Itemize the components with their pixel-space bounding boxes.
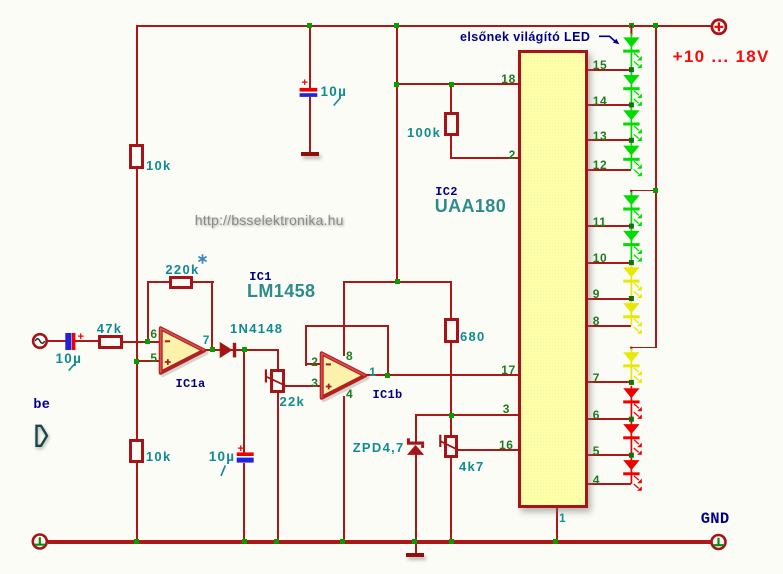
junction LED pin13 [629,138,634,143]
wire zener ground stub [415,542,417,553]
pin label 10 [593,252,608,264]
pin label 1 IC1b [369,366,376,378]
wire 220k left stem [147,281,170,283]
asterisk for 220k [198,254,206,263]
wire corner down to trimmer 22k top [277,349,279,370]
resistor R4 220k [169,276,193,289]
wire IC1a output through D1 to corner [204,349,278,351]
wire pin16 horizontal [458,449,519,451]
value label D1 1N4148 [230,322,283,335]
wire top rail to pin8 node vertical [396,25,398,283]
pin label 15 [593,59,608,71]
terminal input (sine) [33,334,47,348]
wire IC1b pin8 vertical [343,281,345,356]
wire 100k bottom stem [450,136,452,159]
capacitor C3 10u minus plate [237,458,254,463]
junction right rail group B tap [653,188,658,193]
pin label 9 [593,288,600,300]
junction top wire at right rail [653,23,658,28]
wire right +V rail vertical [655,25,657,348]
junction LED pin15 [629,67,634,72]
junction LED pin7 [629,380,634,385]
LED D12 green [623,146,642,177]
pin label 12 [593,159,608,171]
part label UAA180 [435,197,506,215]
label elsonek vilagito LED [460,31,590,44]
pin label 7 UAA [593,372,600,384]
C2 polarity slash [69,365,74,371]
capacitor C2 10u minus plate [65,333,71,350]
capacitor C3 10u plus plate [237,452,254,456]
trimmer P1 22k body [270,369,285,393]
wire non-inverting input IC1a [135,360,162,362]
junction pin3 node [449,413,454,418]
junction IC1a inverting node [145,339,150,344]
value label C1 10u [321,85,348,99]
wire red stub chain C top [630,347,632,350]
value label R4 220k [165,263,199,276]
pin label 2 [509,149,516,161]
pin label 8 UAA [593,315,600,327]
pin label 1 UAA180 [559,512,566,524]
terminal ground right GND [712,535,726,549]
junction LED pin14 [629,102,634,107]
pin label 2 IC1b [311,356,318,368]
LED D7 yellow [623,352,642,383]
wire pin7 to LED chain [587,381,631,383]
pin label 4 IC1b [346,388,353,400]
IC IC2 UAA180 body [518,50,588,508]
pin label 6 IC1a [150,328,157,340]
junction IC1a output [210,347,215,352]
pin label 8 IC1b [346,350,353,362]
value label P2 4k7 [459,460,485,473]
wire C3 to ground rail [243,463,245,543]
LED D14 green [623,75,642,106]
zener diode D2 ZPD4,7 [407,442,424,445]
junction rail at zener [412,539,417,544]
value label R2 10k [146,450,172,463]
wire pin12 to LED chain [587,169,631,171]
resistor R6 680 [444,318,460,343]
resistor R5 100k [444,112,459,136]
op-amp IC1b plus symbol [326,384,332,390]
trimmer P2 4k7 body [444,435,459,458]
junction top wire at pin8 branch [394,23,399,28]
junction pin18 left [394,82,399,87]
LED D5 red [623,424,642,455]
wire top +V rail horizontal [136,25,713,27]
value label D2 ZPD4,7 [353,441,405,454]
C1 polarity slash [334,99,340,106]
trimmer P2 4k7 wiper [439,435,441,447]
value label R3 47k [97,322,123,335]
plus mark C3 [238,444,244,455]
wire 47k to op-amp inverting input [123,341,162,343]
wire pin5 to LED chain [587,454,631,456]
junction top wire at C1 [307,23,312,28]
pin label 17 [501,364,516,376]
label arrow to first LED [599,36,615,41]
junction LED pin11 [629,224,634,229]
value label C2 10u [56,352,83,366]
value label R1 10k [146,159,172,172]
pin label 4 UAA [593,474,600,486]
LED D4 red [623,460,642,491]
pin label 5 UAA [593,445,600,457]
pin label 13 [593,130,608,142]
trimmer P1 22k wiper [265,369,267,382]
op-amp IC1b minus symbol [326,363,331,365]
plus mark C2 [78,332,84,343]
junction rail at IC1b pin4 [340,539,345,544]
capacitor C1 10u minus plate [300,93,318,97]
wire C1 bottom stem to ground bar [309,97,311,153]
wire pin18 horizontal [396,83,519,85]
junction LED pin9 [629,296,634,301]
label GND [701,512,730,528]
wire C2 to R 47k [75,340,99,342]
wire left vertical rail [136,25,138,542]
LED D9 yellow [623,267,642,298]
wire IC1b feedback left vertical [305,325,307,366]
junction pin8 node [395,279,400,284]
wire 22k bottom to ground rail [277,393,279,542]
wire pin4 to LED chain [587,483,631,485]
pin label 14 [593,95,608,107]
wire LED group B tap [630,190,656,192]
terminal ground left [33,535,47,549]
wire IC1b feedback top horizontal [305,325,389,327]
wire UAA180 pin1 vertical [556,507,558,542]
wire 100k top stem [450,83,452,113]
wire pin13 to LED chain [587,139,631,141]
pin label 5 IC1a [150,352,157,364]
wire 4k7 bottom to ground rail [450,457,452,542]
junction pin18 at 100k [449,82,454,87]
wire zener anode to ground rail [415,454,417,542]
value label P1 22k [280,395,306,408]
capacitor C2 10u plus plate [72,333,76,350]
pin label 3 [503,403,510,415]
ground bar under C1 [301,152,320,156]
LED D15 green [623,37,642,68]
junction rail at 22k [274,539,279,544]
label be [33,399,50,413]
junction rail at UAA180 pin1 [553,539,558,544]
wire input terminal to C2 [47,340,66,342]
LED chain B stem yellow part [630,265,632,326]
LED D10 green [623,231,642,262]
pin label 6 UAA [593,409,600,421]
pin label 16 [499,439,514,451]
junction LED pin6 [629,417,634,422]
pin label 11 [593,216,607,228]
resistor R1 10k (top left) [129,144,144,169]
junction rail at 4k7 [449,539,454,544]
wire pin2 horizontal [450,157,519,159]
wire feedback left vertical IC1a [147,281,149,342]
designator IC1b [373,389,403,401]
LED D8 yellow [623,303,642,334]
junction left rail plus input [134,359,139,364]
junction IC1b output [385,373,390,378]
value label C3 10u [209,450,236,464]
wire pin8 supply horizontal [343,281,452,283]
designator IC2 [435,186,458,198]
capacitor C1 10u plus plate [300,88,318,92]
LED D6 red [623,388,642,419]
part label LM1458 [247,282,315,300]
op-amp IC1b [322,353,366,397]
wire 22k wiper to IC1b plus input [285,385,322,387]
pin label 3 IC1b [311,377,318,389]
value label R5 100k [407,126,441,139]
value label R6 680 [460,330,486,343]
wire IC1b feedback right vertical [387,325,389,376]
op-amp IC1b shadow [324,356,368,400]
wire pin9 to LED chain [587,298,631,300]
capacitor C3 plate gap mask [242,456,246,458]
wire pin14 to LED chain [587,104,631,106]
capacitor C1 plate gap mask [308,92,312,93]
wire pin6 to LED chain [587,418,631,420]
pin label 7 IC1a [203,334,210,346]
op-amp IC1a [161,328,205,372]
wire red stub chain A top [630,25,632,35]
wire pin8 to LED chain [587,325,631,327]
wire pin10 to LED chain [587,262,631,264]
op-amp IC1a plus symbol [165,359,171,365]
plus mark C1 [302,78,308,89]
designator IC1a [176,378,206,390]
wire pin17 horizontal IC1b output [364,374,519,376]
diode D1 1N4148 [220,342,233,358]
LED chain C stem yellow part [630,349,632,386]
junction top wire at LED chain A [629,23,634,28]
LED D11 green [623,195,642,226]
op-amp IC1a minus symbol [165,340,170,342]
wire pin11 to LED chain [587,225,631,227]
wire pin3 horizontal [415,414,520,416]
C3 polarity slash [221,465,225,476]
junction rail at C3 [242,539,247,544]
op-amp IC1a shadow [163,331,207,375]
resistor R2 10k (bottom left) [129,439,144,463]
terminal +V [712,20,726,34]
watermark [195,213,344,227]
wire red stub chain B top [630,190,632,194]
junction rail at left vertical [134,539,139,544]
LED chain B stem green part [630,192,632,265]
wire pin3 corner down to zener [415,414,417,442]
LED chain A anode stem [630,34,632,170]
wire node to 680 top [450,281,452,319]
wire pin15 to LED chain [587,69,631,71]
label +10 ... 18V [673,48,770,65]
junction LED pin5 [629,453,634,458]
wire 680 bottom to 4k7 top [450,342,452,436]
input arrow symbol (be) [37,426,48,446]
LED D13 green [623,110,642,141]
LED chain C stem red part [630,386,632,484]
designator IC1 [249,271,272,283]
wire IC1b minus stem [305,363,322,365]
ground bar under rail at zener [406,553,424,557]
wire ground rail bottom [48,540,711,544]
wire C1 top stem [309,25,311,89]
resistor R3 47k [98,335,123,349]
wire IC1b pin4 vertical to ground rail [343,396,345,542]
wire feedback right vertical IC1a [211,281,213,351]
junction LED pin10 [629,260,634,265]
wire diode node down to C3 [243,349,245,453]
junction diode node [242,347,247,352]
pin label 18 [501,73,516,85]
wire 220k right stem [192,281,214,283]
wire LED group C tap [630,347,656,349]
